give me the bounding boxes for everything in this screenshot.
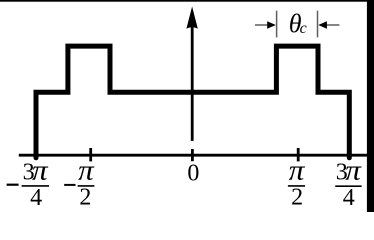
x-axis [19,154,367,157]
svg-text:c: c [300,20,307,37]
label -pi/2 minus [64,184,75,186]
dimension delimiter right [317,11,319,38]
svg-text:0: 0 [187,160,199,186]
y-axis shaft [191,27,194,141]
left dimension arrowhead [267,21,276,28]
svg-text:2: 2 [79,185,91,211]
left dimension arrow tail [255,24,268,26]
y-axis arrowhead [186,7,197,29]
svg-text:π: π [289,155,306,186]
top border line [0,0,374,2]
tick +pi/2 [297,148,300,161]
label -pi/2 fraction bar [78,185,95,187]
label pi/2 fraction bar [288,185,305,187]
label -3pi/4 fraction bar [22,185,49,187]
label 3pi/4 fraction bar [335,185,361,187]
svg-text:4: 4 [343,185,355,211]
function waveform [36,46,349,158]
svg-text:2: 2 [291,184,303,210]
svg-text:π: π [345,155,362,186]
svg-text:π: π [32,155,49,186]
dimension delimiter left [276,11,278,38]
right border bar [367,0,374,212]
right dimension arrowhead [318,21,327,28]
right dimension arrow tail [326,24,339,26]
tick 0 [191,149,194,161]
label -3pi/4 minus [7,184,19,186]
svg-text:π: π [78,155,95,186]
tick -pi/2 [89,148,92,161]
svg-text:4: 4 [30,185,42,211]
